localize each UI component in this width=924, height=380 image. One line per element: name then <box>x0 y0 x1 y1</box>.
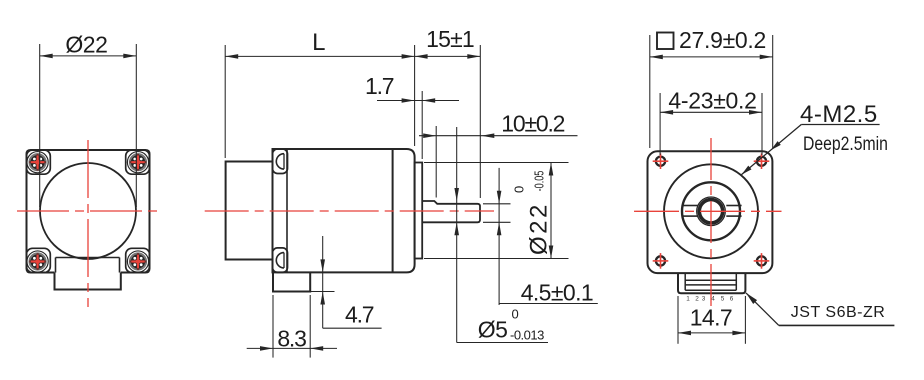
svg-text:27.9±0.2: 27.9±0.2 <box>679 27 766 53</box>
svg-text:2: 2 <box>695 296 699 303</box>
svg-text:0: 0 <box>512 186 527 193</box>
svg-text:-0.013: -0.013 <box>510 328 544 343</box>
svg-text:JST S6B-ZR: JST S6B-ZR <box>791 304 886 321</box>
svg-text:6: 6 <box>730 296 734 303</box>
svg-text:10±0.2: 10±0.2 <box>501 111 564 137</box>
svg-text:8.3: 8.3 <box>277 326 306 352</box>
svg-text:1.7: 1.7 <box>365 73 394 99</box>
svg-text:4-23±0.2: 4-23±0.2 <box>668 88 756 114</box>
svg-text:Ø22: Ø22 <box>65 32 107 58</box>
svg-text:14.7: 14.7 <box>690 305 732 331</box>
svg-text:3: 3 <box>702 296 706 303</box>
svg-text:1: 1 <box>686 296 690 303</box>
svg-text:15±1: 15±1 <box>426 26 474 52</box>
svg-text:5: 5 <box>721 296 725 303</box>
svg-text:4: 4 <box>711 296 715 303</box>
svg-text:0: 0 <box>512 307 519 322</box>
svg-text:Deep2.5min: Deep2.5min <box>803 132 888 154</box>
svg-text:Ø5: Ø5 <box>478 317 508 343</box>
svg-text:Ø22: Ø22 <box>526 202 553 255</box>
svg-text:4.7: 4.7 <box>345 302 374 328</box>
svg-text:4.5±0.1: 4.5±0.1 <box>521 280 593 306</box>
svg-text:L: L <box>312 29 325 56</box>
svg-text:4-M2.5: 4-M2.5 <box>800 101 878 128</box>
svg-text:-0.05: -0.05 <box>533 171 547 192</box>
